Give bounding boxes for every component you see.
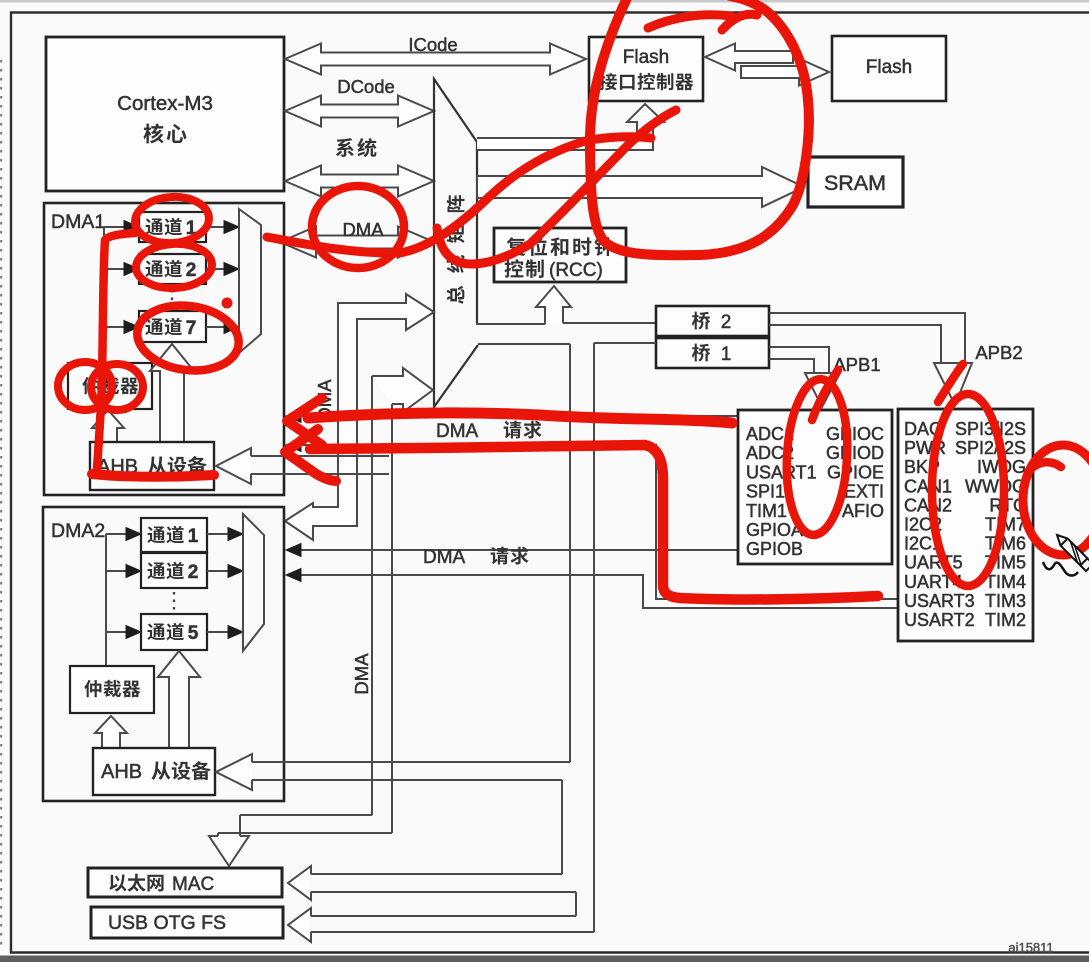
- svg-text:GPIOE: GPIOE: [827, 462, 884, 482]
- svg-text:WWDG: WWDG: [965, 476, 1026, 496]
- svg-text:DMA2: DMA2: [51, 520, 105, 542]
- Flash interface controller box 接口控制器: [589, 37, 703, 101]
- DMA2 dotted continuation: [173, 592, 175, 612]
- red annotation: APB2 tail: [938, 364, 963, 402]
- red annotation: APB1 oval: [783, 378, 851, 537]
- svg-text:EXTI: EXTI: [844, 482, 884, 502]
- svg-text:TIM6: TIM6: [985, 534, 1026, 554]
- svg-text:ai15811: ai15811: [1008, 940, 1053, 955]
- red annotation: big loop around Flash controller: [590, 0, 809, 255]
- wire APB2 bus from bridge2: [769, 313, 965, 363]
- label 总线矩阵 (vertical): [447, 195, 465, 212]
- red annotation: inner curl of right circle: [1032, 462, 1061, 468]
- wire DMA request line 1 (APB2 periph to DMA1): [288, 415, 738, 417]
- wire bus to DMA2 AHB slave (hollow arrow): [252, 761, 570, 763]
- wire DMA request line 4 (APB1 periph to DMA2): [288, 575, 898, 608]
- svg-text:GPIOB: GPIOB: [746, 539, 803, 559]
- svg-text:UART5: UART5: [904, 553, 963, 573]
- DMA2 outer box: [43, 507, 284, 801]
- red annotation: oval around DMA1 channel7: [133, 299, 243, 377]
- svg-text:2: 2: [186, 260, 197, 281]
- wire DMA request line 3 (APB2 periph to DMA2): [288, 549, 738, 551]
- DMA2 channel 2 box 通道2: [106, 570, 128, 572]
- red annotation: left vertical stroke in DMA1: [97, 233, 135, 468]
- svg-text:USART2: USART2: [904, 610, 975, 630]
- svg-text:AHB: AHB: [101, 761, 142, 783]
- wire bridge1 to vertical bus B: [594, 342, 656, 344]
- APB1 down arrow head: [805, 373, 840, 407]
- bridge 2 box 桥2: [656, 306, 769, 336]
- pipe wide bus verticals: [371, 376, 373, 815]
- DMA1 AHB slave box AHB从设备: [90, 442, 214, 490]
- svg-text:DMA: DMA: [342, 219, 384, 240]
- top gray strip: [0, 0, 1089, 3]
- RCC up arrow: [536, 286, 571, 324]
- DMA1 channel 7 box 通道7: [104, 326, 126, 328]
- svg-text:AFIO: AFIO: [842, 501, 884, 521]
- wire APB1 bus from bridge1: [769, 347, 829, 375]
- red annotation: arc through bus matrix: [437, 110, 676, 264]
- DMA2 channel 1 box 通道1: [106, 533, 128, 535]
- svg-text:TIM1: TIM1: [746, 501, 787, 521]
- svg-text:1: 1: [188, 526, 199, 547]
- svg-text:TIM3: TIM3: [985, 591, 1026, 611]
- label 系统: [336, 138, 354, 157]
- wire system bus double arrow: [285, 166, 434, 197]
- USB OTG FS box: [91, 907, 283, 938]
- svg-text:2: 2: [188, 562, 199, 583]
- DMA2 arbiter box 仲裁器: [70, 666, 154, 713]
- red annotation: dot near channel 7: [222, 298, 233, 309]
- red annotation: trace along request line 2 and down to APB1 box: [310, 445, 878, 599]
- pencil squiggle: [1043, 562, 1078, 576]
- bottom gray bar: [0, 956, 1089, 962]
- pipe DMA2 to bus matrix (with arrows both ends): [285, 294, 434, 540]
- svg-text:Flash: Flash: [866, 57, 912, 78]
- DMA2 channel feed vertical: [105, 534, 107, 666]
- wire arrow into Ethernet MAC right: [311, 873, 562, 875]
- red annotation: arbiter oval left: [58, 362, 112, 410]
- DMA2 channel outputs to funnel: [207, 533, 229, 535]
- wire matrix right edge to RCC/bridges: [476, 323, 545, 325]
- svg-text:DMA: DMA: [423, 547, 466, 568]
- pencil cursor: [1053, 531, 1089, 571]
- Flash memory box: [832, 36, 946, 101]
- wire DMA request line 2 (APB1 periph to DMA1): [288, 445, 898, 599]
- DMA1 dotted continuation: [171, 290, 173, 308]
- label DMA (vertical, lower bus): [351, 653, 372, 695]
- red annotation: trace along request line 1: [308, 413, 732, 423]
- DMA1 funnel (mux): [239, 209, 261, 353]
- wire SRAM arrow from matrix: [477, 167, 804, 207]
- svg-text:Cortex-M3: Cortex-M3: [117, 92, 213, 115]
- vertical bus A2: [561, 780, 563, 874]
- wire DMA double arrow: [280, 227, 434, 258]
- APB1 peripherals box (DAC..TIM2): [898, 409, 1033, 641]
- svg-text:DCode: DCode: [337, 76, 395, 97]
- vertical bus A: [569, 344, 571, 762]
- DMA2 AHB slave up arrow to channel 5: [158, 651, 200, 748]
- red annotation: APB1 tail: [812, 370, 838, 420]
- Cortex-M3 core label 核心: [143, 123, 163, 143]
- DMA1 AHB slave up arrow to channel 7: [150, 344, 194, 442]
- DMA2 AHB slave box AHB从设备: [93, 748, 215, 795]
- APB2 peripherals box (ADC1..AFIO): [738, 410, 892, 564]
- red annotation: APB2 oval: [932, 394, 1004, 586]
- svg-text:DMA1: DMA1: [51, 211, 105, 233]
- red annotation: oval around DMA1 channel1: [133, 194, 210, 245]
- svg-text:2: 2: [721, 312, 732, 333]
- svg-text:GPIOC: GPIOC: [826, 424, 884, 444]
- flash interface bus (matrix to flash controller): [477, 104, 664, 150]
- RCC box 复位和时钟控制: [494, 228, 626, 282]
- svg-text:1: 1: [721, 344, 732, 365]
- wire DCode double arrow: [285, 96, 434, 127]
- Ethernet MAC box 以太网MAC: [88, 868, 282, 897]
- svg-text:USB OTG FS: USB OTG FS: [108, 912, 226, 934]
- svg-text:7: 7: [186, 318, 197, 339]
- svg-text:DMA: DMA: [351, 653, 372, 695]
- svg-text:DMA: DMA: [436, 421, 479, 442]
- bus matrix parallelogram: [434, 79, 478, 407]
- vertical bus B: [593, 343, 595, 932]
- DMA1 channel 2 box 通道2: [104, 268, 126, 270]
- DMA1 channel feed vertical: [103, 227, 105, 363]
- vertical bus A3: [575, 892, 577, 916]
- DMA1 outer box: [44, 203, 284, 495]
- DMA2 funnel (mux): [243, 514, 264, 651]
- DMA1 channel 1 box 通道1: [104, 226, 126, 228]
- svg-text:APB2: APB2: [975, 342, 1022, 363]
- svg-text:ICode: ICode: [408, 34, 457, 55]
- APB2 down arrow head: [934, 363, 972, 405]
- wire bus to DMA1 AHB slave (hollow arrow): [251, 455, 389, 457]
- svg-text:SPI2/I2S: SPI2/I2S: [955, 438, 1026, 458]
- svg-text:Flash: Flash: [623, 47, 669, 68]
- wire matrix bottom to vertical bus A: [478, 343, 570, 345]
- pipe wide bus: matrix arrow: [372, 368, 433, 412]
- DMA1 AHB slave up arrow to arbiter: [92, 410, 124, 442]
- svg-text:USART1: USART1: [746, 462, 817, 482]
- DMA1 arbiter box 仲裁器: [68, 363, 152, 409]
- svg-text:GPIOD: GPIOD: [826, 443, 884, 463]
- svg-text:TIM2: TIM2: [985, 610, 1026, 630]
- left dotted edge: [0, 60, 2, 950]
- bridge 1 box 桥1: [656, 338, 769, 368]
- svg-text:SPI1: SPI1: [746, 482, 785, 502]
- DMA2 AHB slave up arrow to arbiter: [95, 716, 127, 748]
- red annotation: long S stroke through DMA circle to flash bus: [267, 137, 651, 253]
- label DMA (vertical, DMA1 bus): [314, 379, 335, 421]
- svg-text:MAC: MAC: [172, 874, 214, 895]
- red annotation: arbiter oval right: [91, 364, 143, 410]
- wire ICode double arrow: [285, 44, 586, 75]
- svg-text:SRAM: SRAM: [824, 171, 886, 195]
- red annotation: DMA circle: [312, 186, 404, 268]
- red annotation: chevron arrow 1 at DMA1: [287, 398, 322, 445]
- red annotation: partial circle right edge: [1023, 445, 1089, 555]
- DMA2 channel 5 box 通道5: [106, 631, 128, 633]
- SRAM box: [808, 157, 903, 207]
- svg-text:(RCC): (RCC): [549, 260, 603, 281]
- wire arrow into USB OTG FS right: [311, 915, 576, 917]
- red annotation: small hook top: [722, 14, 757, 30]
- svg-text:TIM4: TIM4: [985, 572, 1026, 592]
- red annotation: strike under AHB slave: [92, 474, 214, 477]
- red annotation: chevron arrow 2 at DMA1: [285, 429, 336, 481]
- pipe wide bus: ethernet elbow: [240, 814, 372, 816]
- DMA1 channel outputs to funnel: [206, 226, 226, 228]
- red annotation: oval around DMA1 channel2: [135, 242, 213, 290]
- red annotation: loop crossing stroke at top: [648, 15, 731, 28]
- svg-text:5: 5: [188, 623, 199, 644]
- Cortex-M3 core box: [46, 37, 284, 191]
- wire Flash controller to Flash double arrows: [705, 44, 793, 71]
- ethernet down arrow head: [209, 836, 249, 866]
- svg-text:USART3: USART3: [904, 591, 975, 611]
